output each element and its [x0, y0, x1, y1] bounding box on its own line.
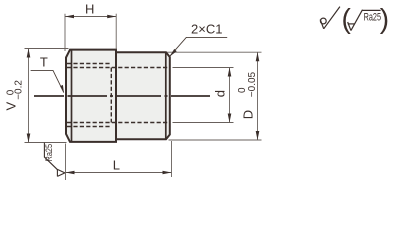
svg-text:2×C1: 2×C1: [191, 21, 222, 36]
svg-text:T: T: [40, 54, 48, 69]
svg-text:−0.05: −0.05: [247, 71, 258, 97]
svg-text:H: H: [85, 1, 94, 16]
svg-text:d: d: [213, 90, 228, 97]
svg-text:−0.2: −0.2: [14, 80, 25, 100]
svg-text:Ra25: Ra25: [45, 143, 55, 161]
svg-text:): ): [380, 3, 389, 34]
svg-text:Ra25: Ra25: [364, 11, 381, 24]
svg-text:D: D: [241, 110, 256, 119]
svg-text:L: L: [113, 158, 120, 173]
svg-text:V: V: [4, 102, 19, 111]
